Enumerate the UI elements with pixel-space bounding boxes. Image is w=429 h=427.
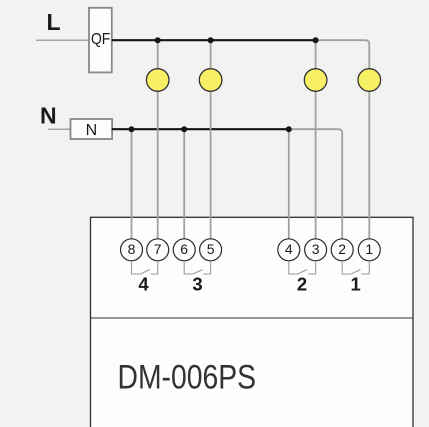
svg-text:4: 4: [138, 274, 149, 295]
breaker QF: [89, 8, 112, 73]
wire L-in: [36, 39, 88, 41]
svg-text:2: 2: [338, 241, 346, 257]
terminal 2: [331, 239, 353, 261]
svg-text:6: 6: [180, 241, 188, 257]
wire N-ext to terminal 2: [289, 129, 342, 239]
svg-text:7: 7: [154, 241, 162, 257]
svg-text:QF: QF: [91, 31, 110, 48]
svg-text:3: 3: [312, 241, 320, 257]
wire N-bus: [112, 128, 289, 130]
junction dot L3: [313, 37, 319, 43]
svg-text:1: 1: [365, 241, 373, 257]
svg-text:5: 5: [207, 241, 215, 257]
svg-text:3: 3: [192, 274, 202, 295]
wire drop to terminal 6: [183, 129, 185, 239]
terminal 1: [358, 239, 380, 261]
junction dot N2: [181, 126, 187, 132]
divider line: [91, 317, 414, 319]
wire drop lamp1 to terminal 7: [157, 40, 159, 239]
wire drop to terminal 4: [288, 129, 290, 239]
svg-text:N: N: [40, 102, 57, 128]
svg-text:DM-006PS: DM-006PS: [118, 359, 257, 397]
switch S3: [184, 261, 210, 274]
terminal 8: [121, 239, 143, 261]
switch S1: [342, 261, 369, 274]
lamp E3: [304, 69, 327, 92]
wire drop lamp2 to terminal 5: [210, 40, 212, 239]
svg-text:N: N: [86, 122, 98, 139]
svg-text:2: 2: [297, 274, 307, 295]
device box DM-006PS: [91, 217, 414, 427]
terminal block N: [71, 119, 113, 139]
wire L-bus: [112, 39, 316, 41]
wire N-in: [48, 128, 70, 130]
lamp E4: [358, 69, 381, 92]
terminal 5: [200, 239, 222, 261]
switch S4: [132, 261, 158, 274]
junction dot N1: [129, 126, 135, 132]
junction dot N3: [286, 126, 292, 132]
terminal 7: [147, 239, 169, 261]
switch S2: [289, 261, 316, 274]
terminal 6: [173, 239, 195, 261]
terminal 4: [278, 239, 300, 261]
junction dot L2: [208, 37, 214, 43]
lamp E1: [146, 69, 169, 92]
lamp E2: [199, 69, 222, 92]
svg-text:8: 8: [128, 241, 136, 257]
wire drop lamp3 to terminal 3: [315, 40, 317, 239]
svg-text:1: 1: [351, 274, 361, 295]
svg-text:4: 4: [285, 241, 293, 257]
wire drop to terminal 8: [131, 129, 133, 239]
wire L-ext to terminal 1: [316, 40, 370, 239]
terminal 3: [305, 239, 327, 261]
junction dot L1: [155, 37, 161, 43]
svg-text:L: L: [47, 9, 61, 35]
